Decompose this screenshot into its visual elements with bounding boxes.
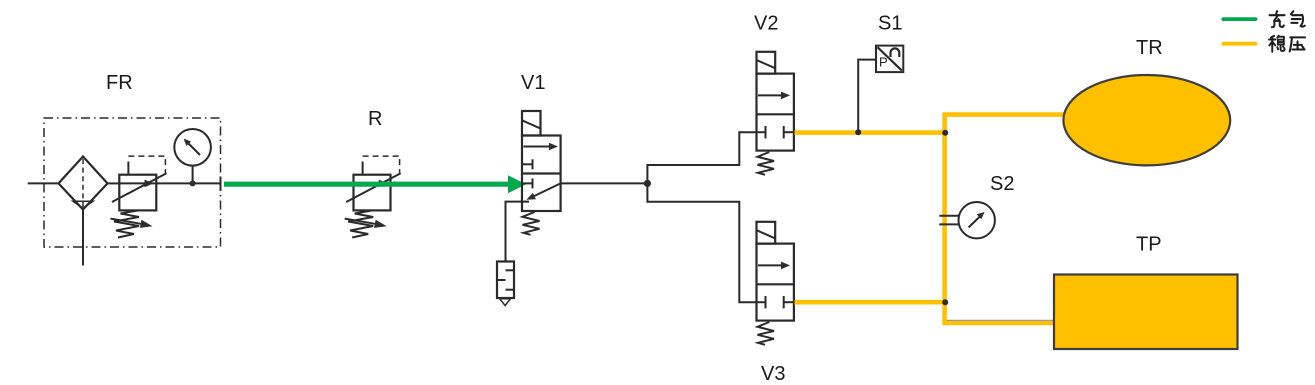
regulator R diagonal adjust line: [346, 173, 401, 202]
tank TR ellipse: [1063, 75, 1230, 165]
tank TP rectangle: [1054, 275, 1238, 350]
V2 flow arrow (top chamber): [758, 94, 784, 96]
pressure switch S1 box: [876, 46, 903, 73]
filter F (diamond): [59, 157, 108, 210]
wire filter to regulator: [108, 182, 120, 184]
regulator pilot tick: [127, 162, 129, 175]
V3 flow arrow (top chamber): [758, 264, 784, 266]
V1 blocked port T (top chamber): [522, 163, 533, 165]
wire node to V2: [647, 132, 756, 183]
silencer triangle: [500, 299, 511, 306]
pipe bus with top and bottom runs: [945, 115, 1065, 323]
node S1 tap dot: [855, 129, 861, 135]
node branch dot: [644, 180, 651, 187]
regulator flow arrowhead: [145, 180, 154, 188]
filter element dashed line: [82, 159, 84, 207]
gauge S2 needle: [969, 217, 980, 228]
svg-text:S1: S1: [878, 13, 902, 35]
valve V2 body: [757, 74, 794, 151]
svg-text:R: R: [368, 108, 382, 130]
pipe V2 to bus: [795, 130, 947, 135]
valve V1 body: [522, 136, 561, 212]
V1 blocked port T (bottom chamber): [522, 182, 533, 184]
regulator R pilot dashed box: [363, 156, 400, 174]
svg-text:V1: V1: [521, 72, 545, 94]
V2 return spring: [758, 152, 775, 175]
wire regulator to gauge junction: [156, 182, 220, 184]
wire supply stub left of FR: [28, 182, 59, 184]
regulator (FR part) body: [119, 175, 156, 211]
V1 exhaust diagonal arrow: [534, 183, 561, 196]
filter drain wire: [82, 210, 84, 266]
regulator diagonal adjust line: [112, 173, 167, 202]
regulator pilot dashed box: [128, 156, 165, 174]
V1 return spring: [523, 212, 540, 235]
V3 blocked port T left: [757, 301, 766, 303]
node bus-V3 dot: [942, 299, 948, 305]
regulator spring arrow: [111, 219, 144, 225]
svg-text:TR: TR: [1136, 37, 1163, 59]
svg-text:TP: TP: [1136, 234, 1162, 256]
gauge S2 dial: [959, 202, 995, 238]
gauge S2 connection lines: [939, 215, 958, 217]
regulator R spring: [348, 211, 373, 238]
regulator spring: [114, 211, 139, 238]
svg-text:V2: V2: [754, 13, 778, 35]
legend text "气" (charge) drawn glyph: [1291, 11, 1305, 26]
svg-text:P: P: [879, 55, 888, 70]
node bus-V2 dot: [942, 130, 948, 136]
regulator R spring arrow: [345, 219, 378, 225]
legend text "压" (stabilize) drawn glyph: [1290, 37, 1305, 51]
FR border port tick: [220, 177, 222, 191]
wire thin gray edge above TP pipe: [947, 319, 1055, 321]
legend stabilize line (orange): [1223, 42, 1255, 46]
wire V1 output to node: [561, 182, 648, 184]
V2 blocked port T right: [784, 131, 794, 133]
V1 flow arrow (top chamber): [524, 146, 553, 148]
wire node to V3: [647, 183, 756, 302]
pressure gauge (FR) stem: [192, 166, 194, 184]
silencer body: [497, 262, 514, 299]
pipe V3 to bus: [795, 300, 947, 305]
legend text "稳" (stabilize) drawn glyph: [1269, 36, 1285, 52]
regulator R flow arrowhead: [379, 180, 388, 188]
valve V1 solenoid: [522, 111, 541, 136]
pressure gauge (FR) dial: [174, 129, 211, 166]
S1 wire: [858, 60, 876, 132]
V1 exhaust wire: [506, 202, 530, 262]
flow arrow (green, charge): [224, 175, 526, 193]
valve V3 body: [757, 244, 794, 321]
pipe stabilize network (orange): [795, 115, 1065, 323]
valve V2 solenoid: [757, 52, 776, 74]
svg-text:S2: S2: [990, 173, 1014, 195]
regulator flow line: [119, 182, 156, 184]
gauge needle: [189, 144, 201, 156]
svg-text:FR: FR: [106, 72, 133, 94]
V3 return spring: [758, 322, 775, 345]
regulator R pilot tick: [362, 162, 364, 175]
legend charge line (green): [1223, 17, 1255, 21]
legend text "充" (charge) drawn glyph: [1270, 11, 1285, 27]
V2 blocked port T left: [757, 131, 766, 133]
regulator R body: [354, 175, 391, 211]
valve V3 solenoid: [757, 222, 776, 244]
svg-text:V3: V3: [761, 363, 785, 385]
filter separator triangle: [73, 201, 93, 208]
S1 contact hook: [891, 48, 900, 57]
V3 blocked port T right: [784, 301, 794, 303]
node gauge junction dot: [190, 180, 196, 186]
FR enclosure dash-dot box: [44, 118, 221, 247]
